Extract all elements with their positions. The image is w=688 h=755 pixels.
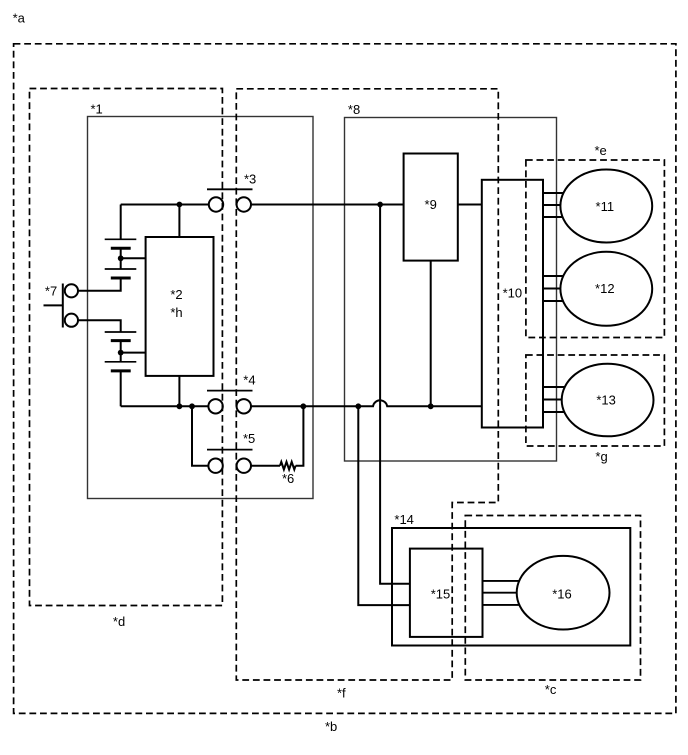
svg-text:*6: *6 <box>282 471 294 486</box>
svg-text:*c: *c <box>545 682 557 697</box>
svg-text:*14: *14 <box>394 512 414 527</box>
svg-text:*5: *5 <box>243 431 255 446</box>
svg-text:*7: *7 <box>45 284 57 299</box>
svg-text:*e: *e <box>595 143 607 158</box>
svg-text:*12: *12 <box>595 281 615 296</box>
svg-text:*1: *1 <box>91 102 103 117</box>
svg-text:*d: *d <box>113 614 125 629</box>
svg-text:*9: *9 <box>425 197 437 212</box>
svg-text:*f: *f <box>337 686 346 701</box>
svg-text:*2: *2 <box>170 287 182 302</box>
svg-text:*15: *15 <box>431 587 451 602</box>
svg-text:*g: *g <box>595 449 607 464</box>
svg-text:*a: *a <box>13 11 26 26</box>
svg-text:*13: *13 <box>596 393 616 408</box>
svg-text:*h: *h <box>170 305 182 320</box>
svg-text:*10: *10 <box>503 286 523 301</box>
svg-text:*3: *3 <box>244 172 256 187</box>
svg-text:*16: *16 <box>552 586 572 601</box>
svg-text:*4: *4 <box>243 373 255 388</box>
svg-text:*11: *11 <box>596 199 615 214</box>
svg-text:*8: *8 <box>348 102 360 117</box>
svg-text:*b: *b <box>325 719 337 734</box>
